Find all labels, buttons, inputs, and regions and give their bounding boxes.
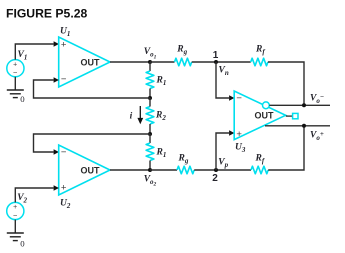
- wire Rg to node 1 to Rf: [192, 61, 251, 63]
- node Vo1: [148, 60, 152, 64]
- svg-text:1: 1: [213, 50, 219, 61]
- svg-text:Vo2: Vo2: [144, 174, 157, 187]
- output terminal square (U3 OUT): [286, 113, 298, 118]
- svg-text:R1: R1: [156, 76, 167, 88]
- svg-text:2: 2: [212, 173, 218, 184]
- svg-text:−: −: [13, 68, 18, 77]
- wire node1 to U3 - input: [216, 62, 234, 101]
- svg-text:Rf: Rf: [255, 154, 265, 166]
- resistor R1 (bottom, vertical): [146, 134, 154, 170]
- node junction R1/R2: [148, 96, 152, 100]
- wire U2 output to node Vo2: [110, 169, 150, 171]
- svg-text:R1: R1: [156, 147, 167, 159]
- svg-text:R2: R2: [155, 110, 166, 122]
- voltage source V2: [7, 202, 24, 220]
- output bubble (U3 inverting output): [263, 102, 270, 109]
- wire Rf to right corner down to Vo- node: [268, 62, 304, 105]
- wire feedback U2 (junction to - input): [34, 134, 151, 155]
- resistor R1 (top, vertical): [146, 62, 154, 98]
- svg-text:Vo+: Vo+: [310, 130, 324, 142]
- svg-text:+: +: [61, 183, 67, 194]
- wire U1 output to node Vo1: [110, 61, 150, 63]
- resistor Rg (bottom): [177, 166, 194, 174]
- op-amp U1: [59, 37, 110, 87]
- ground (V1): [7, 90, 24, 98]
- svg-text:U2: U2: [60, 199, 71, 211]
- resistor Rf (bottom): [251, 166, 268, 174]
- svg-text:Rg: Rg: [178, 154, 189, 166]
- svg-text:Vn: Vn: [219, 66, 229, 78]
- svg-text:−: −: [13, 211, 18, 220]
- svg-text:+: +: [61, 40, 67, 51]
- svg-text:U3: U3: [235, 143, 246, 155]
- svg-text:−: −: [61, 74, 67, 85]
- svg-text:OUT: OUT: [255, 111, 275, 121]
- wire U3 lower output to Vo+: [265, 125, 330, 127]
- wire Vo1 to Rg: [150, 61, 175, 63]
- svg-text:V2: V2: [17, 193, 27, 205]
- resistor Rg (top): [175, 58, 192, 66]
- wire Rf bottom to right corner up to Vo+ node: [268, 126, 304, 170]
- wire V2 to ground: [14, 220, 16, 233]
- current arrow i: [137, 106, 143, 124]
- wire Rg to node 2 to Rf bottom: [194, 169, 251, 171]
- svg-text:U1: U1: [60, 27, 70, 39]
- svg-text:Vo−: Vo−: [310, 93, 324, 105]
- wire V1 to ground: [14, 77, 16, 90]
- node junction R2/R1b: [148, 132, 152, 136]
- node Vo2: [148, 168, 152, 172]
- resistor Rf (top): [251, 58, 268, 66]
- svg-text:FIGURE P5.28: FIGURE P5.28: [6, 7, 87, 21]
- svg-text:Rf: Rf: [255, 45, 265, 57]
- node Vo-: [302, 103, 306, 107]
- svg-text:0: 0: [20, 238, 25, 248]
- svg-text:0: 0: [20, 94, 25, 104]
- wire feedback U1 (junction to - input): [34, 77, 151, 98]
- node Vo+: [302, 124, 306, 128]
- node 1: [214, 60, 218, 64]
- wire V2 to U2 + input: [15, 185, 59, 202]
- op-amp U2: [59, 145, 110, 195]
- node 2: [214, 168, 218, 172]
- ground (V2): [7, 233, 24, 241]
- svg-text:OUT: OUT: [81, 57, 101, 67]
- svg-text:Rg: Rg: [176, 45, 187, 57]
- wire Vo2 to Rg bottom: [150, 169, 177, 171]
- wire V1 to U1 + input: [15, 41, 59, 59]
- svg-text:−: −: [236, 93, 242, 104]
- op-amp U3: [234, 91, 285, 140]
- svg-text:Vp: Vp: [218, 158, 228, 170]
- resistor R2 (vertical): [146, 98, 154, 134]
- svg-text:V1: V1: [18, 50, 28, 62]
- wire node2 to U3 + input: [216, 130, 234, 170]
- svg-text:Vo1: Vo1: [144, 47, 157, 60]
- voltage source V1: [7, 60, 24, 78]
- svg-text:−: −: [61, 147, 67, 158]
- svg-text:i: i: [130, 112, 133, 122]
- svg-text:OUT: OUT: [81, 165, 101, 175]
- svg-text:+: +: [236, 129, 242, 140]
- wire U3 bubble output to Vo-: [269, 104, 330, 106]
